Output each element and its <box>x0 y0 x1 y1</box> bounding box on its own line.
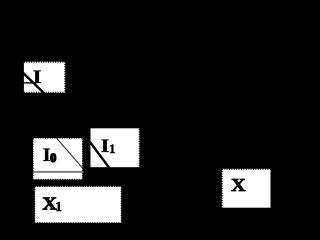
wire diagonal through box I <box>19 69 48 97</box>
wire diagonal in box I0 <box>56 138 82 168</box>
svg-text:X: X <box>231 175 245 195</box>
svg-text:1: 1 <box>109 141 116 156</box>
wire diagonal in box I1 <box>90 142 109 168</box>
wire horizontal in box I <box>23 82 37 84</box>
svg-text:1: 1 <box>55 199 62 214</box>
box X <box>222 169 271 208</box>
box X1 <box>35 186 122 222</box>
wire gray horizontal in box I0 <box>33 171 84 173</box>
svg-text:0: 0 <box>50 151 56 165</box>
box I0 <box>33 138 83 180</box>
svg-text:I: I <box>33 67 42 88</box>
box I <box>24 62 65 93</box>
box I1 <box>91 128 140 167</box>
